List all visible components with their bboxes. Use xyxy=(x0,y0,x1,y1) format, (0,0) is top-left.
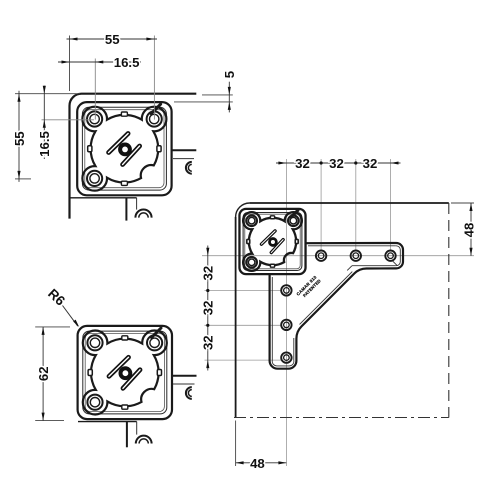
extension line to top-left hole xyxy=(94,59,96,120)
screw hole TL xyxy=(87,111,102,126)
svg-text:16.5: 16.5 xyxy=(114,55,140,70)
extension line to top-right hole xyxy=(153,36,155,120)
plate outer rounded square xyxy=(77,102,171,195)
extension lines left xyxy=(15,93,80,95)
dimension 55 vertical xyxy=(18,91,20,182)
extension lines for 62 xyxy=(35,326,70,328)
panel corner edge xyxy=(70,94,197,219)
screw hole TR xyxy=(147,111,162,126)
dimension 62 vertical xyxy=(42,327,44,421)
panel outline (phantom) xyxy=(236,203,250,217)
plate lobed circle outline xyxy=(83,331,167,415)
bracket arm holes horizontal xyxy=(316,251,326,261)
corner chamfer tab xyxy=(291,210,298,217)
plate inner square 2 xyxy=(85,110,164,188)
svg-text:32: 32 xyxy=(295,156,310,171)
plate lobed circle outline xyxy=(82,107,166,191)
svg-text:16.5: 16.5 xyxy=(37,131,52,157)
svg-text:5: 5 xyxy=(222,71,237,78)
svg-text:48: 48 xyxy=(250,456,265,471)
panel bottom edge (dash-dot) xyxy=(234,417,449,419)
bottom connector arcs (view 2) xyxy=(136,436,152,444)
svg-text:32: 32 xyxy=(201,266,216,281)
dimension 48 right xyxy=(451,202,474,204)
screw hole BL xyxy=(87,171,102,186)
svg-text:62: 62 xyxy=(36,366,51,381)
construction line vertical (hole column) xyxy=(285,159,287,466)
panel hidden edge right (dashed) xyxy=(448,203,450,418)
logo slash 2 xyxy=(271,240,283,253)
logo slash 2 xyxy=(123,146,140,165)
side connector arcs right (view 2) xyxy=(186,387,192,399)
dimension chain 32-32-32 left xyxy=(207,246,209,371)
screw hole TR xyxy=(147,335,162,350)
plate edge tabs xyxy=(122,336,128,340)
logo ring xyxy=(121,368,131,378)
bracket outline xyxy=(270,243,403,369)
svg-text:48: 48 xyxy=(462,223,477,238)
plate inner square 2 xyxy=(245,214,300,269)
svg-text:55: 55 xyxy=(105,32,120,47)
screw hole BL xyxy=(246,257,257,268)
logo slash 1 xyxy=(109,357,129,376)
dimension 55 horizontal xyxy=(67,38,158,40)
bracket arm holes vertical xyxy=(281,285,291,295)
plate edge tabs xyxy=(121,112,127,116)
screw hole TR xyxy=(288,215,299,226)
bottom connector lines (view 2) xyxy=(78,421,137,423)
bracket inner edge lines xyxy=(308,245,396,247)
plate inner square 1 xyxy=(243,213,302,271)
logo slash 1 xyxy=(109,134,129,153)
logo ring xyxy=(269,239,276,246)
svg-text:32: 32 xyxy=(363,156,378,171)
dimension chain 32-32-32 top xyxy=(276,162,401,164)
plate lobed circle outline xyxy=(243,212,302,271)
dimension 5 right xyxy=(202,94,233,96)
bottom connector lines xyxy=(70,197,137,199)
svg-text:32: 32 xyxy=(201,335,216,350)
plate inner square 2 xyxy=(85,334,164,412)
logo ring xyxy=(120,145,130,155)
logo slash 2 xyxy=(123,370,140,389)
construction lines to arm holes xyxy=(320,159,322,251)
screw hole BL xyxy=(87,395,102,410)
corner chamfer tab xyxy=(152,328,162,338)
svg-text:55: 55 xyxy=(12,131,27,146)
screw hole TL xyxy=(246,215,257,226)
screw hole TL xyxy=(87,335,102,350)
corner chamfer tab xyxy=(151,104,161,114)
plate outer rounded square xyxy=(78,326,172,419)
plate edge tabs xyxy=(270,216,274,219)
dimension 48 bottom xyxy=(235,421,237,467)
plate inner square 1 xyxy=(83,331,167,414)
dimension 16.5 vertical xyxy=(43,86,45,159)
svg-text:32: 32 xyxy=(201,301,216,316)
side connector lines right (view 2) xyxy=(172,375,197,377)
construction line horizontal (hole row) xyxy=(202,255,474,257)
logo slash 1 xyxy=(261,231,275,244)
svg-text:32: 32 xyxy=(329,156,344,171)
bottom connector arcs xyxy=(135,210,151,218)
side connector lines right xyxy=(172,149,197,151)
brand text on bracket xyxy=(295,274,321,300)
side connector arcs right xyxy=(186,162,192,174)
leader R6 xyxy=(63,306,78,327)
dimension 16.5 horizontal xyxy=(58,61,141,63)
extension line vertical at panel edge xyxy=(69,36,71,92)
plate inner square 1 xyxy=(82,107,166,190)
plate outer rounded square xyxy=(239,209,305,274)
